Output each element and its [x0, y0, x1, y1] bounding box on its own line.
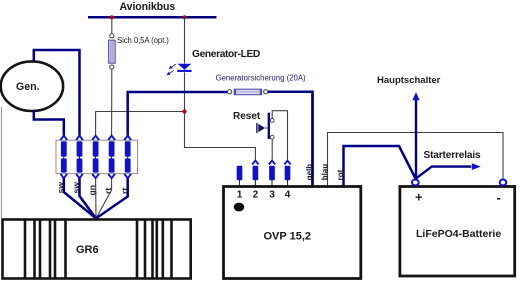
- LED arrow 2: [169, 71, 173, 74]
- GR6 right fins: [137, 220, 172, 278]
- svg-text:blau: blau: [320, 164, 329, 181]
- OVP pin 2: [252, 161, 258, 165]
- wire sw1 to GR6: [64, 178, 96, 218]
- wire generator top to connector pin2: [34, 50, 80, 136]
- wire rt5 to GR6: [96, 178, 128, 218]
- wire OVP gelb lead: [311, 92, 314, 186]
- LED arrow 1: [172, 64, 176, 67]
- svg-text:Reset: Reset: [233, 111, 261, 122]
- wire OVP blau lead to battery minus: [328, 133, 504, 186]
- wire reset top contact to OVP pin4: [272, 111, 287, 161]
- wire LED cathode down through junction to OVP pin2: [185, 72, 256, 160]
- pushbutton S1 top contact: [270, 119, 274, 123]
- battery minus terminal: [500, 180, 507, 186]
- wire left edge remnant: [0, 107, 2, 218]
- fuse F1 body: [109, 40, 116, 63]
- wire sw2 to GR6: [80, 178, 97, 218]
- fuse F2 body: [234, 89, 261, 95]
- svg-text:1: 1: [237, 190, 243, 201]
- fuse F2 right terminal: [264, 90, 268, 94]
- wire fuse F1 to connector pin4: [111, 69, 113, 136]
- battery plus terminal: [412, 180, 419, 186]
- OVP pin 4: [284, 161, 290, 165]
- connector block J1: [56, 140, 138, 173]
- connector column 2 (sw): [76, 136, 83, 179]
- wire OVP rot lead to battery plus: [344, 146, 416, 186]
- wire fuse F2 to OVP gelb: [268, 92, 313, 186]
- OVP pin 3: [269, 161, 275, 165]
- connector column 3 (gn): [92, 136, 99, 179]
- svg-text:Hauptschalter: Hauptschalter: [377, 75, 441, 86]
- fuse F1 bottom terminal: [110, 65, 114, 69]
- OVP pin 1: [237, 166, 243, 181]
- connector column 4 (rt): [108, 136, 115, 179]
- svg-text:Starterrelais: Starterrelais: [424, 150, 482, 161]
- wire avionik bus: [88, 16, 217, 19]
- svg-text:Generator-LED: Generator-LED: [192, 49, 260, 60]
- wire junction to connector pin3 (gn): [96, 112, 185, 136]
- node bus junction left: [110, 15, 114, 19]
- pushbutton S1 bar: [268, 113, 270, 139]
- wire gn to GR6: [95, 178, 97, 218]
- wire bus to fuse F1: [111, 17, 113, 33]
- LED D1: [178, 64, 192, 70]
- connector column 5 (rt): [124, 136, 131, 179]
- pushbutton S1 actuator: [256, 123, 258, 133]
- svg-text:Generatorsicherung (20A): Generatorsicherung (20A): [216, 74, 307, 83]
- node LED junction: [182, 109, 186, 113]
- fuse F2 Generatorsicherung left terminal: [228, 90, 232, 94]
- wire connector pin5 to generator fuse: [128, 92, 228, 136]
- svg-text:-: -: [497, 190, 501, 205]
- wire generator bottom to connector pin1: [34, 111, 64, 136]
- pushbutton S1 bottom contact: [270, 135, 274, 139]
- wire rt4 to GR6: [96, 178, 112, 218]
- svg-text:LiFePO4-Batterie: LiFePO4-Batterie: [416, 228, 501, 240]
- OVP marker dot: [234, 203, 245, 212]
- GR6 left fins: [25, 220, 66, 278]
- svg-text:3: 3: [269, 190, 275, 201]
- svg-text:4: 4: [285, 190, 291, 201]
- svg-text:+: +: [415, 190, 423, 205]
- arrow Hauptschalter: [415, 100, 417, 180]
- svg-text:GR6: GR6: [76, 244, 99, 256]
- regulator GR6 box: [3, 220, 191, 279]
- node bus junction right: [182, 15, 186, 19]
- wire bus to LED: [184, 17, 186, 63]
- connector column 1 (sw): [60, 136, 67, 179]
- svg-text:Gen.: Gen.: [16, 81, 40, 93]
- OVP box: [224, 187, 361, 279]
- wire reset bottom contact to OVP pin3: [271, 139, 273, 160]
- arrow Starterrelais: [416, 167, 472, 179]
- svg-text:2: 2: [253, 190, 259, 201]
- battery box: [400, 187, 515, 277]
- svg-text:Sich 0,5A (opt.): Sich 0,5A (opt.): [117, 36, 169, 45]
- fuse F1 Sich 0,5A top terminal: [110, 34, 114, 38]
- svg-text:Avionikbus: Avionikbus: [120, 1, 176, 13]
- svg-text:gelb: gelb: [305, 164, 314, 181]
- generator Gen.: [1, 61, 63, 111]
- svg-text:rot: rot: [336, 169, 345, 180]
- svg-text:OVP 15,2: OVP 15,2: [264, 231, 312, 243]
